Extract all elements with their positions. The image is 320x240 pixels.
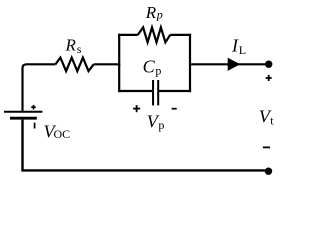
- svg-text:p: p: [155, 63, 161, 77]
- svg-text:p: p: [156, 8, 163, 22]
- svg-text:C: C: [143, 57, 156, 77]
- svg-text:OC: OC: [54, 127, 71, 141]
- svg-text:R: R: [65, 35, 77, 54]
- svg-text:p: p: [158, 118, 164, 132]
- svg-text:L: L: [239, 43, 246, 57]
- svg-text:s: s: [77, 42, 82, 56]
- svg-text:R: R: [145, 3, 157, 22]
